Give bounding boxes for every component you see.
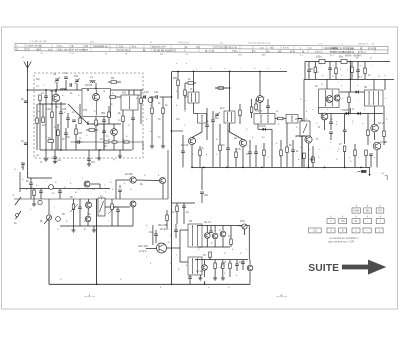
node box j2 xyxy=(55,89,57,91)
resistor R11 xyxy=(280,150,283,156)
wire R41 down xyxy=(348,103,350,114)
pushbutton key C xyxy=(352,228,360,233)
transistor TR20 xyxy=(247,265,253,271)
wire R6 down xyxy=(140,104,142,125)
wire TR1 emitter xyxy=(55,102,57,150)
svg-text:OA79: OA79 xyxy=(259,125,266,128)
wire C33 stub xyxy=(76,83,78,90)
wire R9 up xyxy=(199,146,201,150)
wire band bus upper xyxy=(20,188,110,190)
wire C15 down xyxy=(292,152,294,168)
wire TR4 base xyxy=(201,123,203,132)
wire R11 up xyxy=(280,140,282,150)
wire R20 down xyxy=(111,210,113,227)
resistor R29 xyxy=(110,96,116,99)
capacitor CE7 xyxy=(209,231,213,233)
ground G12 xyxy=(213,278,217,280)
svg-text:FI-2: FI-2 xyxy=(220,107,225,110)
header title block table xyxy=(15,40,388,58)
wire coupling c xyxy=(160,96,172,98)
isolation coil L7 xyxy=(148,98,153,103)
wire TR3 down xyxy=(113,135,115,150)
electrolytic C17 xyxy=(341,60,347,64)
node TR4 join xyxy=(191,167,193,169)
node S3 feed xyxy=(229,71,231,73)
node ab3 xyxy=(204,283,206,285)
wire IF link y88 xyxy=(215,87,230,89)
wire R27 up xyxy=(42,104,44,117)
wire R22 down xyxy=(214,269,216,278)
capacitor C5 xyxy=(102,120,106,122)
wire preamp link2 xyxy=(99,184,101,189)
aux pot body xyxy=(56,217,61,222)
wire R7 down xyxy=(162,114,164,147)
wire C9 up xyxy=(88,150,90,159)
transistor TR21 xyxy=(159,177,165,183)
wire TR3 up xyxy=(113,124,115,129)
svg-text:B r: B r xyxy=(278,50,281,53)
wire IF top bus xyxy=(172,71,288,73)
node AGC xyxy=(171,130,173,132)
svg-text:FI-1: FI-1 xyxy=(190,88,195,91)
wire TR5 base2 xyxy=(230,132,244,139)
wire RB1 up xyxy=(57,124,59,130)
wire C27 up xyxy=(189,275,191,277)
svg-text:m: m xyxy=(276,110,278,113)
svg-text:NTC: NTC xyxy=(240,220,245,223)
wire R37 up xyxy=(314,62,316,68)
wire C36 up xyxy=(330,114,332,123)
capacitor C14 xyxy=(248,152,252,154)
wire TR5 down xyxy=(242,147,244,168)
resistor R12 xyxy=(286,147,289,153)
wire Bplus bus xyxy=(305,61,390,63)
resistor R4 xyxy=(111,81,117,84)
detector filter FL1 xyxy=(254,114,275,125)
wire R23 down xyxy=(222,269,224,278)
capacitor CE1 xyxy=(72,120,76,122)
wire G13 up xyxy=(222,277,224,278)
wire CE3 down xyxy=(206,127,208,140)
wire CE9 down xyxy=(175,232,177,238)
transistor TR6 xyxy=(257,96,264,103)
wire C43 up xyxy=(329,62,331,69)
svg-text:S e: S e xyxy=(48,48,52,51)
capacitor C1 xyxy=(44,96,48,98)
capacitor C32 xyxy=(66,118,70,120)
svg-text:ar: ar xyxy=(150,41,152,44)
svg-text:C11: C11 xyxy=(154,91,159,94)
pushbutton key TM xyxy=(339,219,347,224)
wire C35 up xyxy=(255,145,257,152)
svg-text:5 h h: 5 h h xyxy=(283,47,289,50)
wire preamp link xyxy=(91,183,100,185)
key tick xyxy=(342,216,344,218)
pushbutton key -- xyxy=(363,228,371,233)
ground G10 xyxy=(92,230,96,232)
resistor R26 xyxy=(229,263,232,269)
wire CO1 drop xyxy=(368,167,370,176)
capacitor C7 xyxy=(131,118,135,120)
output cap CO1 xyxy=(355,170,367,174)
svg-text:-O: -O xyxy=(40,52,43,55)
wire R18 up xyxy=(33,189,35,191)
resistor RB2 xyxy=(75,129,78,135)
resistor RE8 xyxy=(166,215,169,221)
wire D1 l xyxy=(258,128,263,130)
wire C15 up xyxy=(292,140,294,150)
svg-text:m: m xyxy=(356,57,358,60)
wire C9 gnd xyxy=(88,161,90,164)
wire boxB right xyxy=(384,79,386,90)
svg-text:7B.HE PB.HQ0UT0T: 7B.HE PB.HQ0UT0T xyxy=(153,49,177,52)
svg-text:4,7k: 4,7k xyxy=(236,148,241,151)
wire R46 down xyxy=(367,136,369,146)
capacitor C35 xyxy=(254,152,258,154)
transistor TR22 xyxy=(86,202,92,208)
wire R32 l xyxy=(185,82,188,84)
wire R34 up xyxy=(251,99,253,107)
capacitor CE6 xyxy=(356,70,360,72)
wire gnd stub A xyxy=(45,150,47,159)
resistor R20 xyxy=(111,204,114,210)
pushbutton key 1 xyxy=(376,228,384,233)
wire R23 up xyxy=(222,260,224,263)
capacitor C36 xyxy=(329,122,333,124)
resistor RE2 xyxy=(108,112,111,118)
wire R36 down xyxy=(263,156,265,168)
svg-text:100u: 100u xyxy=(316,56,322,59)
key tick xyxy=(330,216,332,218)
wire coupling b xyxy=(150,96,156,98)
wire RB2 down xyxy=(75,135,77,151)
capacitor C43 xyxy=(328,68,332,70)
wire TR14 out xyxy=(136,179,159,182)
pushbutton key A xyxy=(327,228,335,233)
wire C43 down xyxy=(329,70,331,80)
pushbutton key C.E xyxy=(309,228,322,233)
wire R47 down xyxy=(383,137,385,146)
resistor R37 xyxy=(314,67,317,73)
wire C42 down xyxy=(22,165,24,170)
resistor RE10 xyxy=(239,110,242,116)
wire drv col xyxy=(167,247,181,249)
wire C14 up xyxy=(249,140,251,152)
wire C37 down xyxy=(330,134,332,140)
capacitor C21 xyxy=(58,191,62,193)
wire TR21 emitter xyxy=(162,184,164,199)
node bus j4 xyxy=(360,167,362,169)
wire mixer stub xyxy=(87,121,89,124)
ground G13 xyxy=(221,278,225,280)
wire C4 stub xyxy=(65,80,67,90)
svg-text:m n: m n xyxy=(358,76,363,79)
svg-text:AC 28: AC 28 xyxy=(196,270,204,273)
wire TR18 down xyxy=(214,239,216,247)
wire TR4 base2 xyxy=(192,132,202,137)
svg-text:10n: 10n xyxy=(57,159,62,162)
wire R22 up xyxy=(214,260,216,263)
inductor L2 xyxy=(60,89,67,90)
wire main left rail xyxy=(171,72,173,284)
svg-text:C10: C10 xyxy=(144,91,149,94)
ferrite rod L6 xyxy=(49,185,54,190)
capacitor C25 xyxy=(235,264,239,266)
svg-text:aBL: aBL xyxy=(238,53,243,56)
capacitor C9 xyxy=(87,159,91,161)
svg-text:rB: rB xyxy=(71,45,74,48)
resistor R46 xyxy=(367,130,370,136)
wire RB3 up xyxy=(36,104,38,118)
svg-text:IE 40 B: IE 40 B xyxy=(368,47,377,50)
transistor TR12 xyxy=(305,136,312,143)
output transformer S5 xyxy=(364,90,383,106)
pushbutton key BD xyxy=(364,208,372,213)
svg-text:10u: 10u xyxy=(149,231,154,234)
wire S1 top xyxy=(128,90,130,95)
wire vol lead2 xyxy=(48,220,50,284)
svg-text:2N2 186: 2N2 186 xyxy=(296,135,306,138)
wire R26 down xyxy=(229,269,231,278)
node box j3 xyxy=(87,89,89,91)
pushbutton key = xyxy=(376,219,384,224)
electrolytic C16 xyxy=(319,60,325,64)
wire main bottom bus xyxy=(192,166,371,168)
svg-text:GRAMME 40: GRAMME 40 xyxy=(93,45,108,48)
wire R31 down xyxy=(151,114,153,147)
wire C23 down xyxy=(117,212,119,226)
wire R29 right xyxy=(116,96,122,98)
wire R51 up xyxy=(354,144,356,150)
wire R2 down xyxy=(51,118,53,151)
resistor RE3 xyxy=(184,90,187,96)
resistor R32 xyxy=(188,82,194,85)
wire C26 down xyxy=(183,208,185,224)
wire R12 up xyxy=(286,123,288,147)
wire R14 down xyxy=(344,152,346,168)
capacitor C24 xyxy=(118,190,122,192)
wire R28 right xyxy=(95,129,99,131)
capacitor C19 xyxy=(343,130,347,132)
ground G11 xyxy=(198,278,202,280)
ground G8 xyxy=(150,146,154,148)
wire TR16 up xyxy=(206,226,208,233)
svg-text:7 GHF-UE OU: 7 GHF-UE OU xyxy=(26,45,42,48)
wire TR23 down xyxy=(87,222,89,226)
wire RE9 up xyxy=(255,99,257,104)
wire V1 up xyxy=(101,198,103,199)
wire mixer out line xyxy=(88,123,121,125)
wire diagonal path xyxy=(68,104,88,124)
wire TR18 up xyxy=(214,226,216,233)
resistor R48 xyxy=(365,150,368,156)
wire C5 down xyxy=(103,122,105,150)
resistor R31 xyxy=(151,108,154,114)
key tick r1 xyxy=(379,205,381,207)
node TR2 top xyxy=(95,88,97,90)
transistor TR14 xyxy=(130,177,136,183)
svg-text:50u: 50u xyxy=(339,56,344,59)
transistor TR16 xyxy=(205,233,211,239)
driver stage box xyxy=(319,89,339,108)
wire gnd stub C xyxy=(119,150,121,156)
diode D1 xyxy=(263,128,266,131)
wire CE6 up xyxy=(357,62,359,71)
wire R1 down xyxy=(39,101,41,151)
ground G14 xyxy=(310,159,314,161)
capacitor C20 xyxy=(39,191,43,193)
capacitor C3 trimmer xyxy=(55,79,59,81)
node ab1 xyxy=(96,283,98,285)
transistor TR9 driver xyxy=(326,96,333,103)
wire CE10 down xyxy=(267,108,269,114)
wire R28 left xyxy=(86,129,89,131)
node base drop xyxy=(51,103,53,105)
key tick xyxy=(379,216,381,218)
svg-text:7CT-UE GR-UE-O G: 7CT-UE GR-UE-O G xyxy=(214,46,237,49)
wire TH1 down xyxy=(244,229,246,235)
wire C2 down xyxy=(60,114,62,150)
wire avc rail xyxy=(167,150,169,199)
svg-text:C.E: C.E xyxy=(313,230,317,233)
svg-text:BM.: BM. xyxy=(262,54,267,57)
transistor TR8 xyxy=(334,95,340,101)
resistor R51 xyxy=(354,150,357,156)
wire CE10 up xyxy=(267,99,269,106)
capacitor C6 xyxy=(70,83,72,87)
capacitor CB2 xyxy=(102,131,106,133)
wire TR19 up xyxy=(222,226,224,231)
wire R29 left xyxy=(109,96,110,98)
transistor TR1 xyxy=(52,94,60,102)
wire R5 up xyxy=(122,110,124,116)
node rail mid xyxy=(349,79,351,81)
wire TR11 down xyxy=(376,150,378,168)
wire R2 up xyxy=(51,104,53,112)
wire C19 up xyxy=(344,114,346,131)
diode D2 xyxy=(356,90,359,93)
wire af sub xyxy=(201,167,203,190)
wire R19 up xyxy=(73,199,75,204)
ground G3 xyxy=(87,164,91,166)
capacitor C12 xyxy=(181,151,185,153)
transistor TR13b xyxy=(321,113,328,120)
wire diode row xyxy=(319,113,383,115)
pushbutton key T xyxy=(327,219,335,224)
wire C13 up xyxy=(212,111,214,120)
coupling coil L5 xyxy=(38,200,42,204)
wire G11 up xyxy=(199,275,201,278)
resistor R14 xyxy=(343,146,346,152)
wire R49 down xyxy=(303,159,305,168)
wire R32 r xyxy=(194,82,197,84)
wire C7 up xyxy=(132,110,134,118)
wire R51 down xyxy=(354,156,356,168)
wire AGC box line xyxy=(71,141,144,143)
wire R3 down xyxy=(95,126,97,151)
capacitor C33 trimmer xyxy=(75,80,79,82)
wire R47 up xyxy=(383,106,385,131)
capacitor C13 xyxy=(211,120,215,122)
svg-text:aO: aO xyxy=(160,53,163,56)
wire RB1 down xyxy=(57,136,59,151)
oscillator coil assembly xyxy=(82,89,111,117)
SUITE arrow xyxy=(342,260,386,275)
wire antenna lead xyxy=(27,70,29,178)
ground G6 xyxy=(161,146,165,148)
wire S2a-S2b xyxy=(193,103,195,114)
wire RE10 down xyxy=(239,116,241,125)
wire RE6 up xyxy=(335,62,337,69)
wire C27 down xyxy=(189,279,191,285)
transistor TR19 xyxy=(220,231,226,237)
diode D3 xyxy=(346,112,349,115)
wire CE5 up xyxy=(308,62,310,71)
IF transformer S1 xyxy=(121,95,138,110)
wire C1 down xyxy=(45,98,47,150)
capacitor C23 xyxy=(116,210,120,212)
wire CE4 down xyxy=(227,150,229,168)
resistor RB1 xyxy=(57,130,60,136)
wire coupling a xyxy=(143,96,146,98)
wire R9 down xyxy=(199,156,201,168)
wire row to boxA xyxy=(318,108,320,114)
wire R40 up xyxy=(364,62,366,69)
wire pp bot xyxy=(195,259,248,261)
wire R8 down xyxy=(177,86,179,100)
svg-text:T.LL: T.LL xyxy=(70,52,75,55)
wire RE8 up xyxy=(166,210,168,215)
wire R39 up xyxy=(351,62,353,68)
transistor TR5 xyxy=(239,139,246,146)
resistor R3 xyxy=(95,120,98,126)
svg-text:W h: W h xyxy=(290,50,295,53)
trimmer arrow C3 xyxy=(55,77,61,83)
ground G5 xyxy=(118,156,122,158)
node box j6 xyxy=(87,123,89,125)
capacitor C37 xyxy=(329,132,333,134)
wire bus drop left xyxy=(304,62,306,80)
resistor RA3 xyxy=(124,141,129,143)
key tick xyxy=(355,216,357,218)
capacitor C22 xyxy=(78,207,82,209)
key tick r1 xyxy=(355,205,357,207)
pushbutton key B xyxy=(339,228,347,233)
pushbutton key SL xyxy=(352,219,360,224)
wire RE10 up xyxy=(239,104,241,110)
resistor R9 xyxy=(199,150,202,156)
bracket mark xyxy=(385,176,387,181)
wire C13 down xyxy=(212,122,214,168)
wire sub bus xyxy=(60,225,133,227)
wire pp top xyxy=(197,225,249,227)
resistor R6 xyxy=(140,98,143,104)
capacitor C27 xyxy=(188,277,192,279)
wire TR13b down xyxy=(324,120,326,130)
wire TR2 top xyxy=(95,83,97,89)
wire S2b jog xyxy=(194,113,198,115)
svg-text:pas montée sur + GR: pas montée sur + GR xyxy=(328,239,354,243)
switch SW1 wiper xyxy=(15,197,21,205)
node S2 feed xyxy=(193,71,195,73)
resistor R39 xyxy=(351,67,354,73)
node bus j7 xyxy=(261,167,263,169)
capacitor CE8 xyxy=(241,262,245,264)
wire CE8 up xyxy=(242,260,244,262)
node bus j3 xyxy=(344,167,346,169)
capacitor C34 xyxy=(78,140,80,144)
wire S4 feed xyxy=(259,72,261,96)
